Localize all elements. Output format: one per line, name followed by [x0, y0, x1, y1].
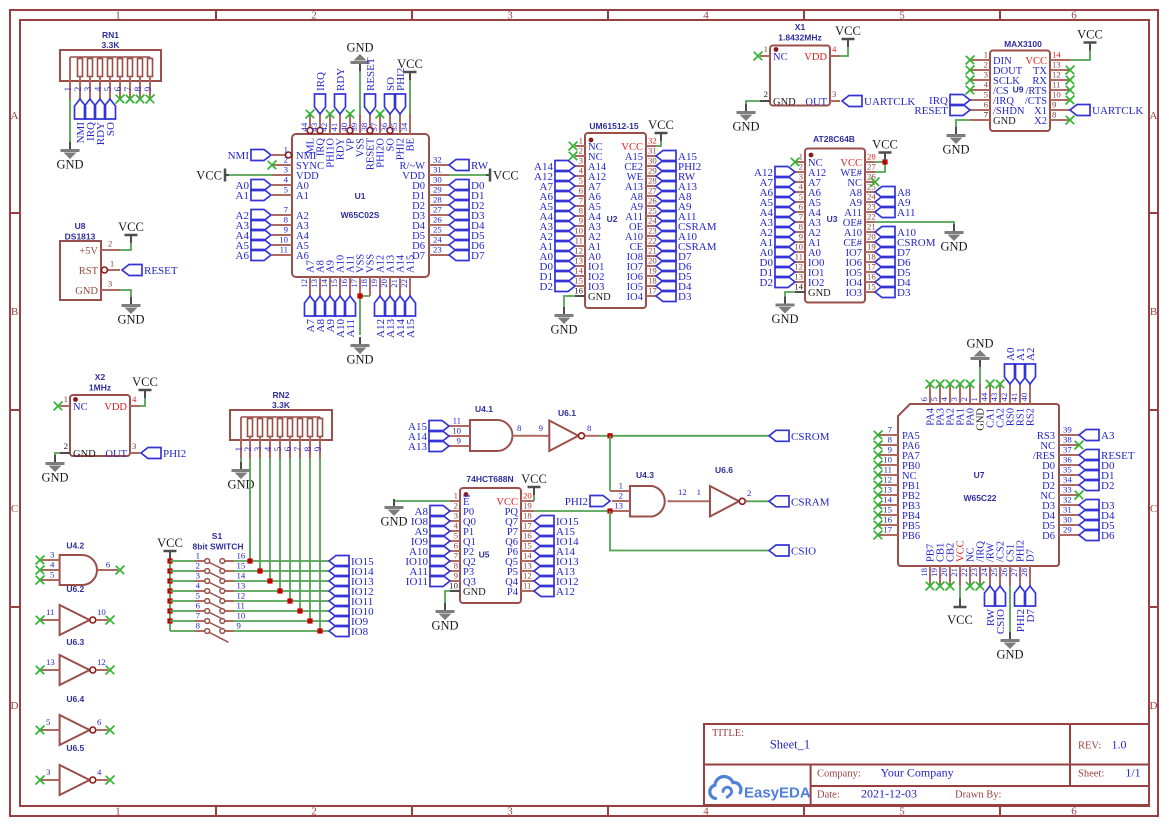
no-connect X (U9 pin 4): [966, 86, 975, 95]
no-connect X (U7 top PA0): [966, 380, 975, 389]
svg-text:Company:: Company:: [817, 769, 861, 780]
svg-text:2: 2: [64, 441, 68, 451]
svg-text:5: 5: [104, 87, 114, 92]
svg-text:1: 1: [110, 259, 114, 269]
net flag RW (U7 pin 24): [985, 586, 998, 626]
net flag A5 (U3 left): [760, 197, 795, 210]
junction (S1 bus): [167, 618, 172, 623]
svg-text:4: 4: [832, 44, 837, 54]
svg-text:X1: X1: [795, 22, 806, 32]
svg-text:5: 5: [454, 531, 459, 541]
svg-text:2: 2: [311, 10, 317, 22]
svg-text:D6: D6: [1101, 530, 1115, 542]
svg-text:3: 3: [50, 550, 55, 560]
net flag A0 (U2 left): [540, 251, 575, 264]
net flag PHI2 (U1 pin 35): [395, 68, 408, 114]
svg-text:13: 13: [309, 278, 319, 287]
net flag D4 (U2 right): [656, 281, 692, 294]
svg-text:6: 6: [984, 100, 989, 110]
svg-text:15: 15: [523, 541, 532, 551]
svg-text:13: 13: [574, 256, 583, 266]
svg-text:A2: A2: [1025, 348, 1037, 361]
svg-text:8: 8: [587, 423, 592, 433]
no-connect X (U7 left pin 16): [874, 521, 883, 530]
svg-text:18: 18: [919, 567, 929, 576]
wire U8 GND: [120, 290, 131, 297]
inverter (label U6.5): [40, 743, 108, 795]
svg-text:7: 7: [984, 110, 989, 120]
net flag RW (U2 right): [656, 171, 696, 184]
net flag D6 (U1 right): [449, 240, 485, 253]
net flag A0 (U7 pin 42): [1005, 347, 1018, 384]
inverter (label U6.3): [40, 637, 108, 685]
no-connect X (inverter input): [36, 666, 45, 675]
svg-text:44: 44: [979, 392, 989, 401]
power flag VCC (U7 pin 21): [947, 598, 973, 627]
wire U5 GND: [445, 591, 450, 603]
svg-text:11: 11: [46, 607, 54, 617]
svg-text:25: 25: [433, 225, 442, 235]
net flag IO13 (S1 row 3): [329, 576, 374, 589]
no-connect X (U1 pin 37): [376, 110, 385, 119]
net flag RESET (U7 pin 37): [1079, 450, 1135, 463]
ground (U1 pins 17/18): [346, 337, 373, 367]
svg-text:BE: BE: [406, 138, 417, 151]
svg-text:15: 15: [574, 276, 583, 286]
no-connect X (U7 pin 44): [986, 380, 995, 389]
net flag UARTCLK (U9 pin 9): [1070, 105, 1143, 118]
svg-text:UARTCLK: UARTCLK: [1092, 105, 1143, 117]
net flag CSRAM (U2 right): [656, 241, 717, 254]
svg-text:A12: A12: [556, 586, 575, 598]
no-connect X (U7 pin 38): [1075, 441, 1084, 450]
svg-text:16: 16: [523, 531, 532, 541]
svg-text:U6.6: U6.6: [715, 465, 733, 475]
net flag A10 (U1 bottom): [335, 296, 348, 338]
svg-text:3.3K: 3.3K: [272, 400, 291, 410]
ground (U3 pin 22): [940, 224, 967, 254]
net flag A11 (U1 bottom): [345, 296, 358, 338]
svg-text:1: 1: [454, 491, 458, 501]
net flag A10 (U5 left): [409, 546, 450, 559]
svg-text:8: 8: [454, 561, 459, 571]
svg-text:VCC: VCC: [835, 24, 861, 38]
net flag A9 (U5 left): [415, 526, 450, 539]
wire U7 VCC pin21: [959, 586, 961, 598]
net flag A9 (U2 right): [656, 201, 692, 214]
IC U1 W65C02S microprocessor: [272, 114, 449, 296]
net flag A14 (U4.1 pin 10): [408, 431, 449, 444]
wire S1 row 2: [170, 570, 195, 572]
net flag A1 (U2 left): [540, 241, 575, 254]
IC U3 AT28C64B EEPROM: [794, 134, 876, 303]
svg-text:41: 41: [329, 123, 339, 132]
no-connect X (U7 top PA1): [956, 380, 965, 389]
svg-text:13: 13: [1052, 60, 1061, 70]
svg-text:4: 4: [939, 397, 949, 402]
svg-text:3: 3: [507, 10, 513, 22]
svg-text:9: 9: [284, 225, 289, 235]
no-connect X (U7 left pin 14): [874, 501, 883, 510]
no-connect X (U2 pin 1): [569, 142, 578, 151]
svg-text:Drawn By:: Drawn By:: [955, 790, 1001, 801]
wire S1 row 4: [170, 590, 195, 592]
svg-text:32: 32: [648, 136, 657, 146]
svg-text:10: 10: [794, 242, 803, 252]
ground (U2 pin 16): [550, 307, 577, 337]
no-connect X (U7 top PA2): [946, 380, 955, 389]
svg-text:RST: RST: [79, 266, 99, 277]
svg-text:B: B: [11, 306, 18, 318]
svg-text:9: 9: [314, 447, 324, 452]
net flag D0 (U3 left): [760, 257, 795, 270]
svg-text:2: 2: [799, 162, 803, 172]
svg-text:U6.5: U6.5: [66, 743, 84, 753]
net flag D5 (U2 right): [656, 271, 692, 284]
svg-text:40: 40: [1019, 392, 1029, 401]
svg-text:8: 8: [304, 447, 314, 452]
svg-text:34: 34: [1063, 475, 1072, 485]
svg-text:6: 6: [196, 601, 201, 611]
net flag D3 (U7 pin 32): [1079, 500, 1115, 513]
svg-text:D2: D2: [760, 277, 773, 289]
net flag A1 (U7 pin 41): [1015, 348, 1028, 384]
no-connect X (U7 left pin 10): [874, 461, 883, 470]
svg-text:1.8432MHz: 1.8432MHz: [778, 33, 821, 43]
net flag D3 (U3 right): [875, 287, 911, 300]
svg-text:4: 4: [264, 447, 274, 452]
svg-text:1: 1: [984, 50, 988, 60]
wire U7 GND pin1: [979, 367, 981, 384]
net flag A7 (U2 left): [540, 181, 575, 194]
net flag A15 (U4.1 pin 11): [408, 421, 449, 434]
svg-text:IRQ: IRQ: [315, 72, 327, 91]
svg-text:U6.3: U6.3: [66, 637, 84, 647]
svg-text:GND: GND: [73, 449, 96, 460]
svg-text:21: 21: [389, 279, 399, 288]
net flag A13 (U2 right): [656, 181, 697, 194]
svg-text:24: 24: [433, 235, 442, 245]
svg-text:11: 11: [453, 416, 461, 426]
wire RN1 pin1 to GND: [69, 99, 71, 142]
svg-text:5: 5: [274, 447, 284, 452]
svg-text:17: 17: [349, 278, 359, 287]
net flag A4 (U2 left): [540, 211, 575, 224]
net flag A12 (U2 left): [534, 171, 575, 184]
net flag A12 (U1 bottom): [375, 296, 388, 338]
wire S1 row 5: [170, 600, 195, 602]
net flag D2 (U2 left): [540, 281, 575, 294]
net flag A13 (U4.1 pin 9): [408, 441, 449, 454]
ground (U1 pin 39): [346, 41, 373, 72]
net flag A6 (U1 left): [236, 250, 271, 263]
no-connect X (U1 pin 44 ML): [306, 110, 315, 119]
svg-text:30: 30: [1063, 515, 1072, 525]
wire S1 row 3: [170, 580, 195, 582]
svg-text:4: 4: [703, 10, 709, 22]
net flag A7 (U1 bottom): [305, 296, 318, 332]
wire U3 VCC pin28: [875, 161, 885, 163]
svg-text:B: B: [1150, 306, 1157, 318]
svg-text:7: 7: [454, 551, 459, 561]
svg-text:22: 22: [648, 236, 657, 246]
svg-text:4: 4: [97, 767, 102, 777]
svg-text:3: 3: [132, 441, 137, 451]
no-connect X (U7 left pin 8): [874, 441, 883, 450]
svg-text:2: 2: [108, 239, 112, 249]
net flag D5 (U3 right): [875, 267, 911, 280]
ground (U7 pin 26): [996, 632, 1023, 662]
svg-text:4: 4: [196, 581, 201, 591]
wire U9 GND: [956, 120, 970, 127]
net flag D5 (U1 right): [449, 230, 485, 243]
svg-text:28: 28: [867, 152, 876, 162]
net flag SO (U1 pin 36): [385, 77, 398, 114]
switch S1 8bit SWITCH: [193, 531, 246, 642]
svg-text:D2: D2: [540, 281, 553, 293]
power flag VCC (U1 pin 34): [397, 57, 423, 80]
net flag RDY (RN1 pin 4): [95, 99, 108, 145]
svg-text:A11: A11: [897, 207, 916, 219]
net flag PHI2 (U4.3 pin 2): [565, 496, 610, 509]
svg-text:43: 43: [989, 392, 999, 401]
svg-text:PHI2: PHI2: [565, 496, 588, 508]
net flag IO11 (U5 left): [406, 576, 450, 589]
net flag A3 (U7 pin 39): [1079, 430, 1115, 443]
net flag A8 (U3 pin 25): [875, 187, 911, 200]
net flag IO14 (U5 right): [534, 536, 579, 549]
wire CSIO net: [610, 511, 769, 551]
svg-text:9: 9: [888, 445, 893, 455]
net flag A9 (U3 pin 24): [875, 197, 911, 210]
svg-text:12: 12: [1052, 70, 1061, 80]
no-connect X (U9 pin 13): [1066, 66, 1075, 75]
no-connect X (U1 pin 42): [326, 110, 335, 119]
net flag SO (RN1 pin 5): [105, 99, 118, 136]
svg-text:2: 2: [244, 447, 254, 452]
ground (U5 pin 10): [431, 603, 458, 633]
net flag PHI2 (U7 pin 27): [1015, 586, 1028, 632]
svg-text:D7: D7: [471, 250, 485, 262]
svg-text:12: 12: [794, 262, 803, 272]
net flag D1 (U1 right): [449, 190, 484, 203]
svg-text:21: 21: [867, 222, 876, 232]
svg-text:16: 16: [237, 551, 246, 561]
net flag A0 (U3 left): [760, 247, 795, 260]
net flag A3 (U1 left): [236, 220, 271, 233]
svg-text:20: 20: [939, 567, 949, 576]
svg-text:3: 3: [832, 89, 837, 99]
svg-text:W65C22: W65C22: [963, 493, 996, 503]
net flag A12 (U3 left): [754, 167, 795, 180]
svg-text:U6.1: U6.1: [558, 408, 576, 418]
no-connect X (inverter output): [106, 726, 115, 735]
svg-text:3: 3: [579, 156, 584, 166]
svg-text:3: 3: [949, 397, 959, 402]
EasyEDA logo: [710, 777, 811, 802]
net flag D7 (U2 right): [656, 251, 692, 264]
no-connect X (U4.2 input): [36, 556, 45, 565]
wire U1 VDD pin31: [449, 174, 486, 176]
net flag A1 (U3 left): [760, 237, 795, 250]
svg-text:D3: D3: [897, 287, 911, 299]
wire S1 row 1: [170, 560, 195, 562]
svg-text:VCC: VCC: [196, 169, 222, 183]
svg-text:A15: A15: [406, 255, 417, 273]
svg-text:10: 10: [452, 426, 461, 436]
svg-text:6: 6: [454, 541, 459, 551]
net flag A14 (U2 left): [534, 161, 575, 174]
wire X1 VDD: [840, 47, 848, 56]
no-connect X (U7 left pin 7): [874, 431, 883, 440]
net flag RESET (U1 pin 38): [365, 57, 378, 114]
no-connect X (U7 left pin 17): [874, 531, 883, 540]
svg-text:IO3: IO3: [846, 288, 862, 299]
no-connect X (U7 left pin 11): [874, 471, 883, 480]
wire RN2 pin4 to switch row 3: [269, 458, 271, 581]
AND gate U4.3: [610, 470, 710, 517]
svg-text:3.3K: 3.3K: [102, 40, 121, 50]
power flag VCC (U1 pin 3): [196, 169, 229, 183]
inverter U6.6: [697, 465, 752, 517]
net flag D2 (U1 right): [449, 200, 484, 213]
svg-text:8: 8: [799, 222, 804, 232]
svg-text:VDD: VDD: [804, 52, 827, 63]
net flag A10 (U2 right): [656, 231, 697, 244]
net flag D7 (U7 pin 28): [1025, 586, 1038, 622]
svg-text:RN1: RN1: [102, 30, 119, 40]
power flag VCC (U3 pin 28): [872, 138, 898, 161]
svg-text:RDY: RDY: [335, 68, 347, 91]
svg-text:27: 27: [1009, 567, 1019, 576]
svg-text:14: 14: [237, 571, 246, 581]
svg-text:34: 34: [399, 122, 409, 131]
net flag D0 (U2 left): [540, 261, 575, 274]
svg-text:74HCT688N: 74HCT688N: [466, 474, 513, 484]
inverter (label U6.2): [40, 584, 108, 635]
no-connect X (X1 pin 1): [754, 52, 763, 61]
svg-text:5: 5: [46, 717, 51, 727]
no-connect X (U7 top PA4): [926, 380, 935, 389]
net flag D6 (U3 right): [875, 257, 911, 270]
svg-text:8: 8: [579, 206, 584, 216]
net flag IO9 (U5 left): [411, 536, 450, 549]
svg-text:3: 3: [84, 87, 94, 92]
svg-text:6: 6: [114, 87, 124, 92]
svg-text:21: 21: [949, 568, 959, 577]
net flag D2 (U7 pin 34): [1079, 480, 1114, 493]
svg-text:1/1: 1/1: [1125, 766, 1140, 780]
svg-text:OUT: OUT: [105, 449, 127, 460]
svg-text:9: 9: [454, 571, 459, 581]
IC U9 MAX3100 UART: [970, 39, 1070, 131]
svg-text:22: 22: [959, 568, 969, 577]
wire X2 GND: [55, 453, 60, 455]
svg-text:20: 20: [523, 491, 532, 501]
svg-text:37: 37: [1063, 445, 1072, 455]
svg-text:D: D: [11, 700, 19, 712]
svg-text:EasyEDA: EasyEDA: [744, 785, 811, 802]
svg-text:2: 2: [984, 60, 988, 70]
no-connect X (inverter input): [36, 616, 45, 625]
wire RN2 pin7 to switch row 6: [299, 458, 301, 611]
resistor network RN2 3.3K: [230, 390, 332, 458]
svg-text:27: 27: [867, 162, 876, 172]
svg-text:7: 7: [888, 425, 893, 435]
svg-text:7: 7: [579, 196, 584, 206]
svg-text:14: 14: [574, 266, 583, 276]
svg-text:11: 11: [884, 465, 892, 475]
wire U9 VCC: [1070, 51, 1090, 61]
no-connect X (U7 left pin 12): [874, 481, 883, 490]
svg-text:VDD: VDD: [104, 402, 127, 413]
svg-text:7: 7: [799, 212, 804, 222]
svg-text:1: 1: [579, 136, 583, 146]
svg-text:38: 38: [1063, 435, 1072, 445]
svg-text:C: C: [11, 503, 18, 515]
svg-text:GND: GND: [942, 143, 969, 157]
no-connect X (U9 pin 8): [1066, 116, 1075, 125]
net flag D3 (U1 right): [449, 210, 485, 223]
junction (S1 bus): [167, 608, 172, 613]
svg-text:VCC: VCC: [132, 375, 158, 389]
svg-text:CSIO: CSIO: [995, 609, 1007, 634]
svg-text:19: 19: [929, 567, 939, 576]
net flag A6 (U3 left): [760, 187, 795, 200]
net flag D0 (U1 right): [449, 180, 485, 193]
svg-text:1: 1: [799, 152, 803, 162]
svg-text:NMI: NMI: [228, 150, 250, 162]
svg-text:GND: GND: [966, 337, 993, 351]
svg-text:5: 5: [899, 10, 905, 22]
svg-text:18: 18: [359, 278, 369, 287]
svg-text:5: 5: [984, 90, 989, 100]
svg-text:3: 3: [46, 767, 51, 777]
junction (U3 VCC): [882, 159, 887, 164]
svg-text:VCC: VCC: [521, 472, 547, 486]
svg-text:D7: D7: [1025, 609, 1037, 623]
svg-text:26: 26: [999, 567, 1009, 576]
svg-text:6: 6: [579, 186, 584, 196]
svg-text:IO8: IO8: [351, 626, 369, 638]
wire RN2 pin8 to switch row 7: [309, 458, 311, 621]
svg-text:X2: X2: [95, 372, 106, 382]
svg-text:9: 9: [237, 621, 242, 631]
net flag D5 (U7 pin 30): [1079, 520, 1115, 533]
svg-text:15: 15: [883, 505, 892, 515]
net flag IO15 (S1 row 1): [329, 556, 374, 569]
wire U5 VCC: [533, 495, 535, 501]
net flag A13 (U5 right): [534, 566, 575, 579]
net flag CSRAM (U2 right): [656, 221, 717, 234]
svg-text:VCC: VCC: [157, 536, 183, 550]
power flag VCC (U2 pin 32): [648, 118, 674, 141]
svg-text:24: 24: [979, 567, 989, 576]
svg-text:A15: A15: [405, 319, 417, 338]
ground (U5 pin 1): [380, 499, 407, 529]
svg-text:38: 38: [359, 122, 369, 131]
net flag IO8 (S1 row 8): [329, 626, 369, 639]
resistor network RN1 3.3K: [60, 30, 161, 99]
svg-text:Sheet:: Sheet:: [1078, 769, 1104, 780]
net flag D4 (U7 pin 31): [1079, 510, 1115, 523]
ground (RN1 pin 1): [56, 142, 83, 172]
svg-text:U5: U5: [479, 550, 490, 560]
svg-text:16: 16: [574, 286, 583, 296]
svg-text:TITLE:: TITLE:: [712, 728, 744, 739]
net flag A14 (U1 bottom): [395, 296, 408, 338]
net flag NMI (U1 pin 1): [228, 150, 271, 163]
